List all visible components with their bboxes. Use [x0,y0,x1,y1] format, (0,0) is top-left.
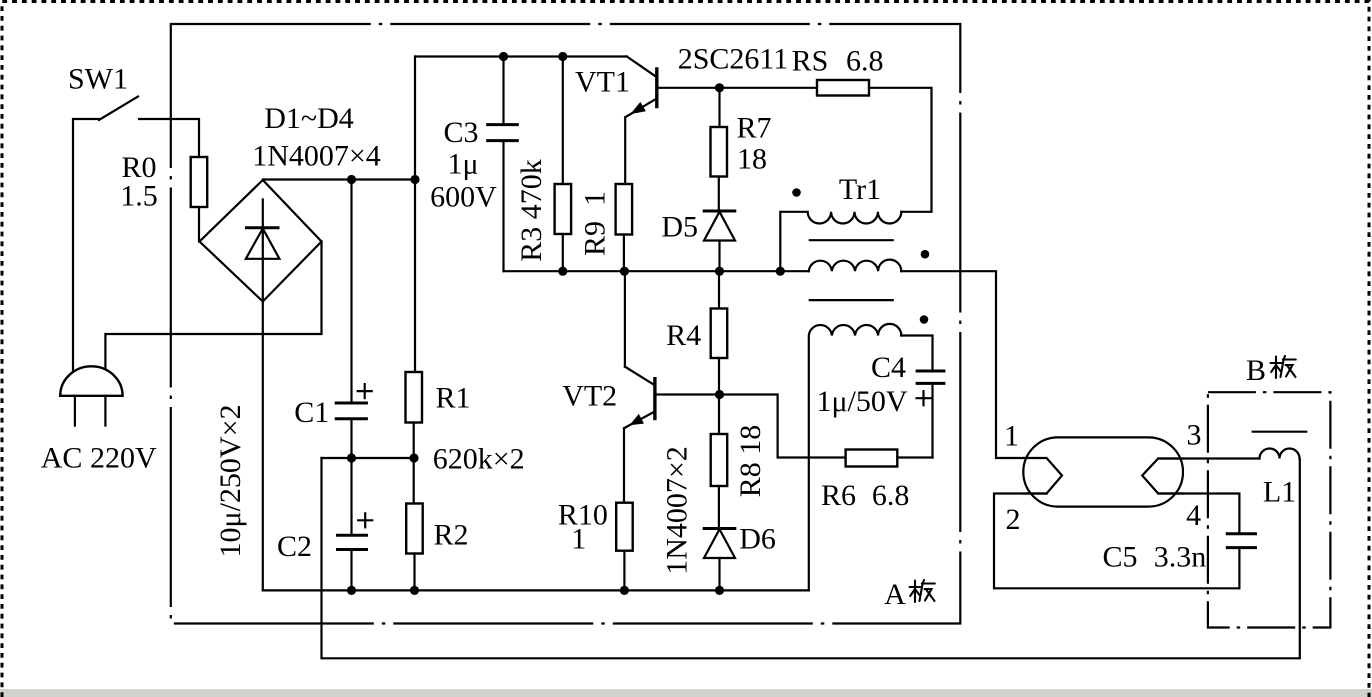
wire: R3 top feed [562,57,564,185]
svg-text:R9 1: R9 1 [579,191,612,256]
wire: R8 top from VT2 base node [718,395,720,435]
wire: 620k divider node [322,457,415,459]
junction dot VT2 base node [715,390,724,399]
resistor RS [817,80,869,96]
resistor R10 [616,503,633,551]
svg-text:3: 3 [1187,419,1202,452]
wire: R4 bottom to VT2 base node [718,358,720,395]
svg-text:1: 1 [1004,420,1019,453]
svg-text:600V: 600V [430,181,497,214]
plus sign of C1 [358,384,372,398]
Tr1 core line upper [810,239,893,241]
capacitor C2 [336,535,368,549]
wire: VT2 base node to R6 [720,395,846,458]
wire: R1 column from top rail [414,57,416,373]
plus sign of C4 [917,391,931,405]
wire: D6 anode to bus [718,558,720,590]
diode D6 cathode bar [703,527,737,530]
wire: bottom bus [263,589,809,591]
junction dot R10 bus [620,586,629,595]
wire: C5 bottom lead [1238,549,1240,588]
diode D5 cathode bar [703,210,737,213]
junction dot R1 620k node [409,453,418,462]
Tr1 winding 3 phase dot [920,315,929,324]
fluorescent lamp tube [1023,437,1183,506]
svg-text:1.5: 1.5 [120,180,158,213]
transistor VT2 emitter lead [624,412,654,428]
wire: C3 top feed [502,57,504,124]
wire: R4 top from mid rail [718,271,720,308]
junction dot R3 top [558,52,567,61]
resistor R1 [406,372,423,423]
wire: VT1 base lead to R7 node [658,87,817,89]
wire: AC neutral from plug to bridge right vertex [105,242,321,371]
svg-text:R3 470k: R3 470k [515,159,548,262]
wire: lamp pin 4 to C5 top [1158,494,1239,533]
board A dash-dot frame [171,24,961,624]
wire: R3 bottom to mid rail [562,234,564,271]
svg-text:2: 2 [1006,503,1021,536]
svg-text:1μ: 1μ [447,148,478,181]
wire: lamp pin 3 to L1 [1158,457,1259,459]
wire: VT2 emitter to R10 [623,428,625,503]
capacitor C3 [486,125,519,141]
transistor VT2 collector lead [625,367,654,385]
svg-text:1μ/50V: 1μ/50V [816,385,907,418]
junction dot D5 mid rail [715,267,724,276]
svg-text:D6: D6 [739,523,776,556]
resistor R9 [616,184,633,235]
svg-text:C2: C2 [277,530,312,563]
svg-text:1: 1 [571,523,586,556]
transformer Tr1 winding 1 [780,212,901,271]
AC plug symbol [60,366,122,395]
plug prong left [74,396,76,426]
wire: R1 bottom to 620k node [413,423,415,504]
junction dot R3 mid rail [558,267,567,276]
grey scan strip at bottom [0,689,1372,697]
glyph ban of board A [910,580,935,602]
junction dot C3 top [499,52,508,61]
junction dot R9 mid rail [620,267,629,276]
transistor VT1 emitter lead [625,99,656,118]
wire: bridge negative output down to bottom bus [262,200,264,591]
svg-text:D5: D5 [661,211,698,244]
svg-text:B: B [1246,354,1266,387]
wire: C2 bottom to bus [350,551,352,590]
resistor R4 [711,309,728,359]
svg-text:R1: R1 [435,382,470,415]
junction dot R2 bus [410,586,419,595]
svg-text:18: 18 [737,143,767,176]
wire: R7 bottom to D5 [718,177,720,212]
Tr1 core line lower [810,299,893,301]
transformer Tr1 winding 2 [809,260,901,272]
diode D5 triangle [704,212,735,241]
wire: R8 bottom to D6 [718,486,720,529]
svg-text:1N4007×4: 1N4007×4 [252,140,381,173]
svg-text:1N4007×2: 1N4007×2 [661,446,694,575]
wire: R2 bottom to bus [413,554,415,591]
transistor VT1 base bar [655,67,658,108]
junction dot winding1 mid rail [776,267,785,276]
svg-text:R6: R6 [821,479,856,512]
L1 core bar [1253,431,1307,433]
svg-text:R7: R7 [736,112,771,145]
svg-text:VT2: VT2 [562,380,617,413]
wire: C3 bottom to mid rail [502,142,504,271]
resistor R3 [555,184,572,234]
switch SW1 blade [99,97,138,121]
junction dot C2 bus [347,586,356,595]
resistor R8 [711,434,728,486]
svg-text:R8 18: R8 18 [734,425,767,498]
wire: mid rail [504,270,809,272]
lamp left electrode with pin 1 wire [1023,458,1062,494]
capacitor C5 [1226,534,1257,548]
svg-text:C4: C4 [871,351,906,384]
wire: SW1 left lead from mains [73,119,99,372]
board B dash-dot frame [1208,392,1331,627]
svg-text:620k×2: 620k×2 [433,443,525,476]
Tr1 winding 2 phase dot [921,250,930,259]
junction dot C1 rail [347,175,356,184]
resistor R0 [191,157,208,207]
wire: lamp return loop to B board [322,458,1300,658]
wire: R7 top feed [718,88,720,127]
wire: D5 anode to mid rail [718,241,720,272]
svg-text:6.8: 6.8 [872,479,910,512]
junction dot VT1 base node [715,83,724,92]
svg-text:C3: C3 [443,116,478,149]
wire: R10 bottom to bus [623,551,625,591]
resistor R6 [846,450,898,467]
lamp right electrode [1142,459,1183,494]
plus sign of C2 [358,513,372,527]
svg-text:A: A [884,578,906,611]
transistor VT2 base bar [653,377,656,420]
bridge inner diode triangle [246,229,280,259]
resistor R7 [711,127,728,177]
wire: R0 to bridge left vertex [198,207,200,242]
wire: winding 2 to lamp pin 1 [901,271,1023,458]
wire: lamp pin 2 to C5 bottom [994,494,1239,589]
svg-text:D1~D4: D1~D4 [264,102,354,135]
wire: C1 bottom to C2 top [350,420,352,533]
wire: top supply rail [415,55,627,57]
diode D6 triangle [704,529,735,558]
transistor VT2 emitter arrow [630,414,645,425]
junction dot R1 rail [410,175,419,184]
glyph ban of board B [1271,356,1296,378]
wire: VT2 base lead [657,393,720,395]
wire: R6 to C4 branch [897,456,932,458]
bridge inner diode cathode bar [245,226,280,229]
transformer Tr1 winding 3 [809,324,901,591]
svg-text:R4: R4 [666,319,701,352]
svg-text:Tr1: Tr1 [839,173,881,206]
transistor VT1 emitter arrow [631,102,646,114]
svg-text:R2: R2 [433,519,468,552]
svg-text:3.3n: 3.3n [1154,541,1207,574]
capacitor C4 [916,371,946,383]
wire: R9 bottom to mid rail [623,235,625,272]
svg-text:VT1: VT1 [575,66,630,99]
wire: winding 3 to C4 top [901,336,932,370]
transistor VT1 collector lead [627,57,657,77]
wire: RS to Tr1 winding 1 top [869,88,932,212]
svg-text:L1: L1 [1263,476,1296,509]
Tr1 winding 1 phase dot [792,188,801,197]
resistor R2 [406,504,423,554]
junction dot C1 620k node [347,453,356,462]
svg-text:10μ/250V×2: 10μ/250V×2 [214,404,247,557]
wire: VT1 emitter to R9 [624,117,626,184]
svg-text:AC 220V: AC 220V [41,442,157,475]
svg-text:RS: RS [792,45,829,78]
wire: C4 bottom to R6 node [931,385,933,458]
svg-text:SW1: SW1 [68,63,128,96]
junction dot D6 bus [715,586,724,595]
svg-text:2SC2611: 2SC2611 [678,43,789,76]
bridge rectifier D1~D4 diamond [200,180,322,302]
plug prong right [104,396,106,426]
svg-text:4: 4 [1186,499,1201,532]
wire: VT2 collector from mid rail [624,271,626,366]
svg-text:C5: C5 [1102,541,1137,574]
wire: positive rail from bridge top vertex [263,178,415,180]
wire: SW1 right lead to R0 [139,119,199,157]
capacitor C1 [335,403,368,419]
inductor L1 [1260,449,1300,459]
svg-text:6.8: 6.8 [846,45,884,78]
wire: C1 top feed [350,180,352,402]
svg-text:C1: C1 [294,396,329,429]
